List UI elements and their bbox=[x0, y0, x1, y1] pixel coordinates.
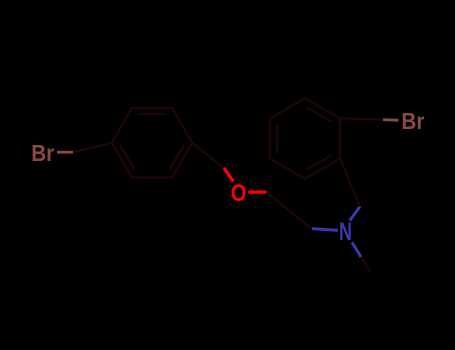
svg-text:Br: Br bbox=[401, 108, 424, 134]
wire CH2c to ring2 bbox=[340, 159, 360, 207]
bond N-CH2c (N colored) bbox=[350, 207, 360, 221]
wire CH2a-CH2b bbox=[266, 192, 311, 229]
svg-text:Br: Br bbox=[31, 140, 54, 166]
ring2 benzene (disubstituted phenyl, right) bbox=[270, 98, 340, 178]
bond C-Br right (Br colored) bbox=[383, 118, 399, 122]
wire ring1 to benzylic C7 bbox=[192, 143, 224, 169]
ring1 benzene (4-substituted phenyl, left) bbox=[112, 108, 192, 178]
wire ring2 to CH2d (bromomethyl) bbox=[340, 118, 383, 119]
bond C7-O (O colored) bbox=[224, 168, 234, 182]
bond N-CH3 methyl (N colored) bbox=[352, 242, 361, 257]
bond CH2b-N (N colored) bbox=[312, 229, 338, 231]
svg-text:N: N bbox=[339, 218, 352, 246]
bond C-Br left (Br colored) bbox=[57, 151, 73, 154]
wire methyl tail bbox=[361, 257, 371, 273]
bond O-CH2a (O colored) bbox=[248, 191, 266, 194]
svg-text:O: O bbox=[231, 180, 247, 207]
wire CH2(benzylic-Br left) to ring1 bbox=[73, 143, 112, 153]
